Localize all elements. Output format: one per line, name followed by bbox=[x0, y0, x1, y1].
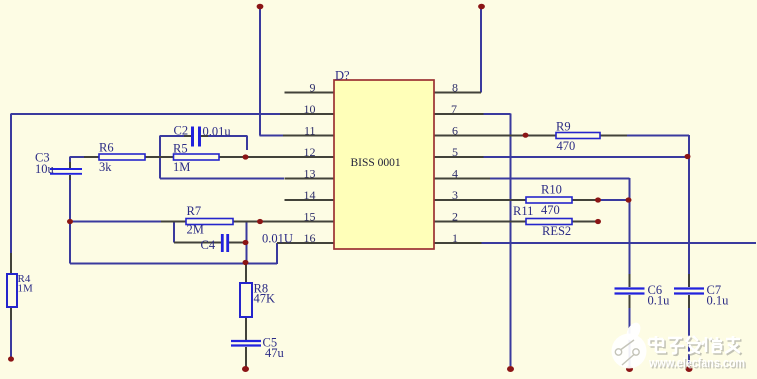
svg-text:www.elecfans.com: www.elecfans.com bbox=[648, 356, 745, 370]
svg-text:0.01u: 0.01u bbox=[203, 125, 232, 139]
svg-text:2: 2 bbox=[452, 210, 458, 224]
svg-text:R5: R5 bbox=[173, 142, 188, 156]
svg-text:0.01U: 0.01U bbox=[262, 232, 293, 246]
svg-text:7: 7 bbox=[451, 102, 457, 116]
svg-text:9: 9 bbox=[310, 81, 316, 95]
svg-text:R6: R6 bbox=[99, 141, 114, 155]
svg-text:D?: D? bbox=[335, 69, 350, 83]
svg-text:C2: C2 bbox=[174, 124, 189, 138]
svg-text:13: 13 bbox=[304, 167, 316, 181]
svg-text:R7: R7 bbox=[187, 204, 202, 218]
svg-text:2M: 2M bbox=[187, 223, 204, 237]
svg-text:6: 6 bbox=[452, 124, 458, 138]
svg-text:8: 8 bbox=[452, 81, 458, 95]
svg-text:47K: 47K bbox=[254, 292, 276, 306]
svg-text:12: 12 bbox=[304, 145, 316, 159]
svg-text:1M: 1M bbox=[173, 160, 190, 174]
svg-text:1: 1 bbox=[452, 231, 458, 245]
svg-text:10u: 10u bbox=[35, 162, 55, 176]
svg-text:0.1u: 0.1u bbox=[648, 294, 671, 308]
svg-text:11: 11 bbox=[304, 124, 316, 138]
svg-text:4: 4 bbox=[452, 167, 458, 181]
svg-text:10: 10 bbox=[304, 102, 316, 116]
svg-text:R11: R11 bbox=[513, 204, 533, 218]
svg-text:5: 5 bbox=[452, 145, 458, 159]
svg-text:47u: 47u bbox=[265, 346, 285, 360]
svg-text:14: 14 bbox=[304, 188, 316, 202]
svg-text:C4: C4 bbox=[201, 238, 216, 252]
svg-text:3k: 3k bbox=[99, 160, 112, 174]
svg-text:470: 470 bbox=[541, 203, 560, 217]
svg-text:0.1u: 0.1u bbox=[707, 294, 730, 308]
svg-text:15: 15 bbox=[304, 210, 316, 224]
svg-text:3: 3 bbox=[452, 188, 458, 202]
svg-text:R10: R10 bbox=[541, 183, 562, 197]
svg-text:470: 470 bbox=[557, 139, 576, 153]
svg-text:1M: 1M bbox=[18, 283, 34, 295]
svg-text:RES2: RES2 bbox=[542, 224, 571, 238]
svg-text:BISS 0001: BISS 0001 bbox=[351, 157, 401, 169]
svg-text:16: 16 bbox=[304, 231, 316, 245]
svg-text:R9: R9 bbox=[556, 120, 571, 134]
